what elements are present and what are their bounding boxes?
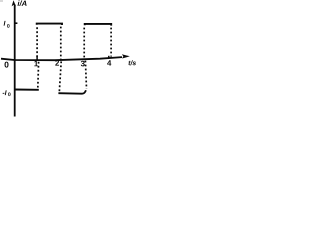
x-axis label t/s [128, 60, 135, 65]
tick label 4 [107, 60, 111, 65]
pulse 1 left dotted (t=1 above axis) [36, 27, 38, 60]
y-axis label i/A [18, 0, 27, 6]
tick label 3 [81, 61, 85, 67]
tick label 2 [55, 60, 59, 65]
negative segment 2 (t=2..3 at -I0) [58, 90, 86, 94]
tick label 1 [34, 61, 38, 67]
origin label 0 [5, 62, 9, 68]
x-axis [1, 54, 130, 60]
tick above axis at t=4 [108, 56, 110, 59]
pulse 1 top (t=1..2 at I0) [37, 24, 62, 25]
t=3 dotted below axis [85, 61, 86, 89]
label -I0 [3, 90, 11, 96]
t=1 dotted below axis [37, 62, 40, 88]
pulse 2 left dotted (t=3 above axis) [83, 28, 85, 60]
I0 tick on y-axis [15, 22, 18, 24]
t=2 dotted below axis [59, 61, 61, 92]
y-axis [12, 0, 16, 116]
negative segment 1 (t=0..1 at -I0) [15, 89, 39, 91]
label I0 [4, 21, 10, 28]
tick above axis at t=1 [36, 56, 38, 60]
pulse 1 right dotted (t=2 above axis) [60, 27, 62, 60]
pulse 2 right dotted (t=4 above axis) [110, 28, 112, 57]
pulse 2 top (t=3..4 at I0) [85, 24, 112, 26]
